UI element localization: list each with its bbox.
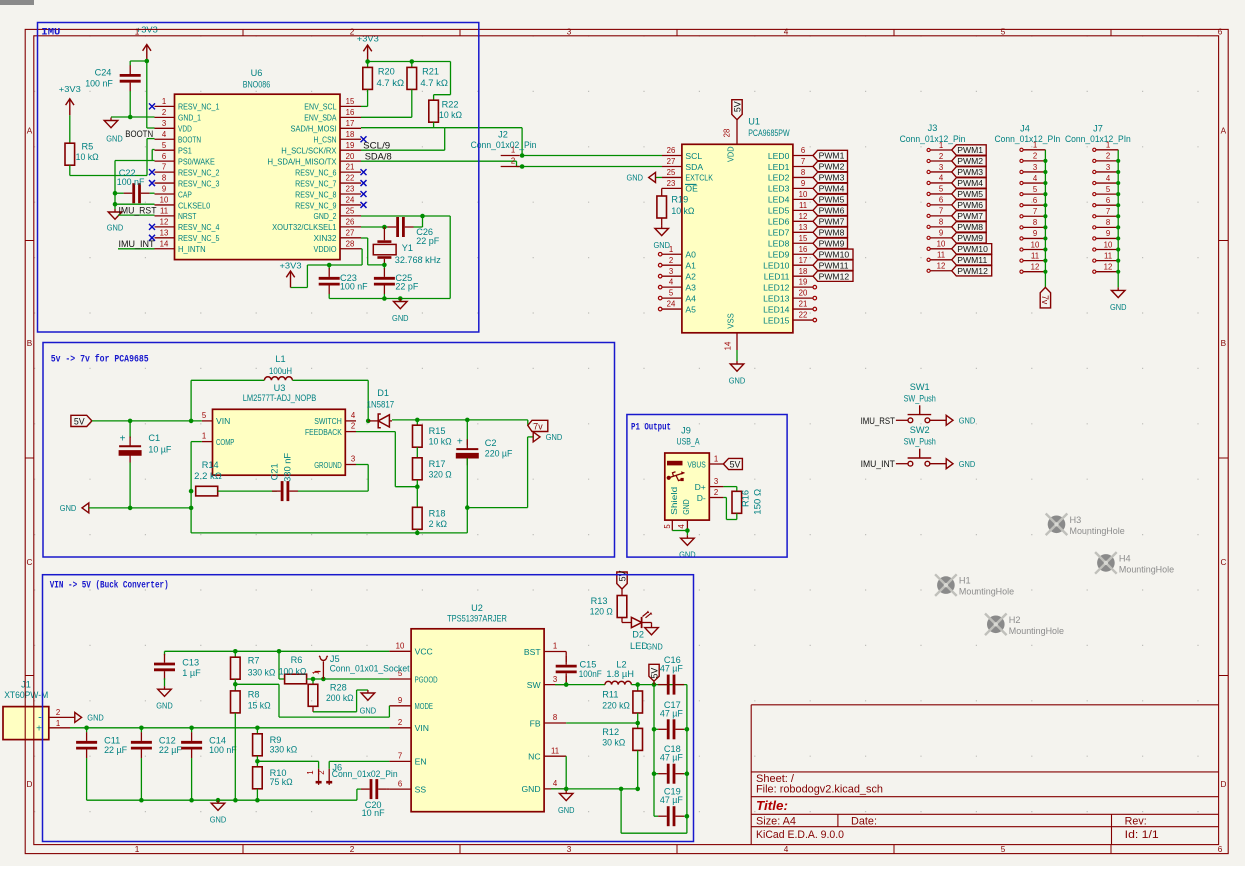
svg-text:PGOOD: PGOOD [415,674,438,684]
svg-text:2: 2 [669,256,673,265]
svg-text:22 µF: 22 µF [159,745,182,755]
svg-text:RESV_NC_2: RESV_NC_2 [178,167,220,177]
svg-text:D: D [1220,780,1226,789]
svg-text:Rev:: Rev: [1125,816,1147,828]
svg-text:2: 2 [1106,152,1110,161]
svg-text:1: 1 [311,670,320,675]
svg-text:22 µF: 22 µF [104,745,127,755]
svg-text:15: 15 [799,234,808,243]
svg-text:7: 7 [801,157,805,166]
svg-text:H4: H4 [1119,553,1131,563]
svg-text:BOOTN: BOOTN [178,135,201,145]
svg-text:10 kΩ: 10 kΩ [76,152,99,162]
svg-text:100 nF: 100 nF [85,79,113,89]
svg-text:3: 3 [567,845,572,854]
svg-text:3: 3 [939,163,943,172]
svg-text:PWM3: PWM3 [819,173,845,183]
svg-text:200 kΩ: 200 kΩ [326,693,354,703]
svg-text:5V: 5V [732,101,742,112]
svg-text:4: 4 [677,524,686,529]
svg-text:LED11: LED11 [764,271,790,281]
svg-text:LED0: LED0 [768,151,790,161]
svg-text:LED15: LED15 [763,315,789,325]
svg-text:5: 5 [663,524,672,529]
svg-text:5: 5 [1106,185,1111,194]
svg-text:8: 8 [553,713,557,722]
svg-text:3: 3 [1033,163,1037,172]
svg-text:+3V3: +3V3 [280,260,302,270]
svg-text:100nF: 100nF [579,669,602,679]
svg-text:H_INTN: H_INTN [178,244,206,254]
svg-text:11: 11 [937,251,945,260]
svg-text:EXTCLK: EXTCLK [685,173,713,183]
svg-text:10: 10 [160,196,169,205]
svg-text:R14: R14 [202,460,219,470]
svg-text:IMU_INT: IMU_INT [861,458,896,469]
svg-text:Y1: Y1 [402,243,413,253]
svg-text:10: 10 [1031,240,1040,249]
svg-text:30 kΩ: 30 kΩ [602,738,625,748]
svg-text:C13: C13 [182,658,199,668]
svg-text:2: 2 [350,28,355,37]
svg-text:PWM10: PWM10 [819,249,850,259]
svg-text:KiCad E.D.A. 9.0.0: KiCad E.D.A. 9.0.0 [756,829,844,841]
svg-text:C21: C21 [270,463,280,480]
svg-text:27: 27 [346,228,355,237]
svg-text:LED6: LED6 [768,217,790,227]
svg-text:C1: C1 [148,433,160,443]
svg-text:12: 12 [937,262,946,271]
svg-text:GND: GND [106,134,123,144]
svg-text:PWM2: PWM2 [957,156,983,166]
svg-text:GND: GND [959,459,976,469]
svg-text:GND: GND [681,499,691,515]
svg-text:1: 1 [56,719,60,728]
svg-text:GND: GND [521,784,540,794]
svg-text:PWM8: PWM8 [957,222,983,232]
svg-text:19: 19 [799,278,808,287]
svg-text:U2: U2 [471,603,483,613]
svg-text:MountingHole: MountingHole [1070,526,1125,536]
svg-text:100 nF: 100 nF [340,282,368,292]
svg-text:Conn_01x12_PIn: Conn_01x12_PIn [1065,133,1131,144]
svg-text:21: 21 [799,300,808,309]
svg-text:22: 22 [799,311,808,320]
svg-text:VCC: VCC [415,647,433,657]
svg-text:VSS: VSS [726,313,736,329]
svg-text:RESV_NC_7: RESV_NC_7 [295,178,337,188]
svg-text:3: 3 [351,455,355,464]
svg-text:9: 9 [939,229,943,238]
svg-text:120 Ω: 120 Ω [590,606,613,616]
svg-text:RESV_NC_8: RESV_NC_8 [295,189,337,199]
svg-text:100 nF: 100 nF [117,177,145,187]
svg-text:A3: A3 [685,282,696,292]
svg-text:1: 1 [553,642,557,651]
svg-text:PWM7: PWM7 [819,217,845,227]
svg-text:MountingHole: MountingHole [959,587,1014,597]
svg-text:220 kΩ: 220 kΩ [602,700,630,710]
svg-text:Title:: Title: [756,799,788,813]
svg-text:26: 26 [346,217,355,226]
svg-text:MountingHole: MountingHole [1119,564,1174,574]
svg-text:IMU: IMU [41,26,60,38]
svg-text:1: 1 [1106,141,1110,150]
svg-text:FB: FB [530,718,541,728]
svg-text:R18: R18 [429,508,446,518]
svg-text:5V: 5V [74,416,85,426]
svg-text:PWM6: PWM6 [819,206,845,216]
svg-text:ENV_SDA: ENV_SDA [304,113,336,123]
svg-text:SCL: SCL [685,151,702,161]
svg-text:GROUND: GROUND [314,460,342,470]
svg-text:4: 4 [784,28,789,37]
svg-text:GND: GND [959,416,976,426]
svg-text:GND: GND [392,313,409,323]
svg-text:6: 6 [1106,196,1110,205]
svg-text:24: 24 [346,196,355,205]
svg-text:A5: A5 [685,304,696,314]
svg-text:P1 Output: P1 Output [631,422,671,433]
svg-text:RESV_NC_4: RESV_NC_4 [178,222,220,232]
svg-text:R13: R13 [591,596,608,606]
svg-text:R16: R16 [741,490,751,507]
svg-text:XIN32: XIN32 [314,233,337,243]
svg-text:2: 2 [317,770,326,775]
svg-text:J9: J9 [681,426,691,436]
svg-text:PWM10: PWM10 [957,244,988,254]
svg-text:47 µF: 47 µF [660,753,683,763]
svg-text:MODE: MODE [415,701,434,711]
svg-text:7: 7 [939,207,943,216]
svg-text:+: + [120,434,126,445]
svg-text:10: 10 [396,642,405,651]
svg-text:20: 20 [799,289,808,298]
svg-text:TPS51397ARJER: TPS51397ARJER [447,614,507,624]
svg-text:17: 17 [346,119,355,128]
svg-text:XOUT32/CLKSEL1: XOUT32/CLKSEL1 [272,222,337,232]
svg-text:1: 1 [511,145,515,154]
svg-text:GND: GND [558,805,575,815]
svg-text:PS1: PS1 [178,146,192,156]
svg-text:PWM4: PWM4 [957,178,983,188]
svg-text:H2: H2 [1009,615,1021,625]
svg-text:1: 1 [135,28,140,37]
svg-text:Date:: Date: [851,816,877,828]
svg-text:23: 23 [346,185,355,194]
svg-text:-: - [38,712,42,724]
svg-text:9: 9 [1033,229,1037,238]
svg-text:LED12: LED12 [763,282,789,292]
svg-text:6: 6 [1033,196,1037,205]
svg-text:3: 3 [714,477,718,486]
svg-text:22: 22 [346,174,355,183]
svg-text:1: 1 [939,141,943,150]
svg-text:LED8: LED8 [768,239,790,249]
svg-text:8: 8 [939,218,943,227]
svg-text:18: 18 [799,267,808,276]
svg-text:6: 6 [162,152,166,161]
svg-text:A2: A2 [685,271,696,281]
svg-text:1: 1 [135,845,140,854]
svg-text:SW2: SW2 [910,425,930,435]
svg-text:18: 18 [346,130,355,139]
svg-text:Id: 1/1: Id: 1/1 [1125,829,1159,841]
svg-text:PWM11: PWM11 [819,260,849,270]
svg-text:A1: A1 [685,261,696,271]
svg-text:7: 7 [398,752,402,761]
svg-text:6: 6 [939,196,943,205]
svg-text:4: 4 [553,779,558,788]
svg-text:LM2577T-ADJ_NOPB: LM2577T-ADJ_NOPB [243,393,317,403]
svg-text:1: 1 [162,97,166,106]
svg-text:Conn_01x01_Socket: Conn_01x01_Socket [330,662,410,673]
svg-text:A: A [27,127,33,136]
svg-text:SAD/H_MOSI: SAD/H_MOSI [291,124,337,134]
svg-text:5: 5 [1033,185,1038,194]
svg-text:D+: D+ [695,482,706,492]
svg-text:8: 8 [1033,218,1037,227]
svg-text:Conn_01x12_PIn: Conn_01x12_PIn [995,133,1061,144]
svg-text:SDA: SDA [685,162,703,172]
svg-text:2: 2 [162,108,166,117]
svg-text:FEEDBACK: FEEDBACK [305,427,342,437]
svg-text:23: 23 [667,179,676,188]
svg-text:A: A [1221,127,1227,136]
svg-text:J3: J3 [928,123,938,133]
svg-text:2: 2 [511,156,515,165]
svg-text:R5: R5 [82,142,94,152]
svg-text:12: 12 [160,217,169,226]
svg-text:330 kΩ: 330 kΩ [248,668,276,678]
svg-text:OE: OE [685,184,698,194]
svg-text:+: + [457,436,463,447]
svg-text:GND_2: GND_2 [314,211,337,221]
svg-text:4: 4 [939,174,944,183]
svg-text:5V: 5V [649,668,659,679]
svg-text:4: 4 [1106,174,1111,183]
svg-text:VDD: VDD [178,124,192,134]
svg-text:5V: 5V [617,571,627,582]
svg-text:10: 10 [799,190,808,199]
svg-text:H_CSN: H_CSN [314,135,337,145]
svg-text:10 kΩ: 10 kΩ [429,436,452,446]
svg-text:4.7 kΩ: 4.7 kΩ [377,78,405,88]
svg-text:11: 11 [160,207,168,216]
svg-text:R8: R8 [248,690,260,700]
svg-text:15: 15 [346,97,355,106]
svg-text:IMU_RST: IMU_RST [119,205,157,216]
svg-text:GND: GND [60,503,77,513]
svg-text:PWM9: PWM9 [957,233,983,243]
svg-text:9: 9 [162,185,166,194]
svg-text:2 kΩ: 2 kΩ [429,519,448,529]
svg-text:3: 3 [567,28,572,37]
svg-text:10 kΩ: 10 kΩ [671,206,694,216]
svg-text:J4: J4 [1020,124,1030,134]
svg-text:14: 14 [160,239,169,248]
svg-text:1: 1 [1033,141,1037,150]
svg-text:47 µF: 47 µF [660,708,683,718]
svg-text:SCL/9: SCL/9 [363,139,390,150]
svg-text:R9: R9 [270,735,282,745]
svg-text:7v: 7v [533,422,543,432]
svg-text:H_SCL/SCK/RX: H_SCL/SCK/RX [281,146,336,156]
svg-text:Size: A4: Size: A4 [756,816,796,828]
svg-text:1: 1 [669,245,673,254]
svg-text:LED13: LED13 [763,293,789,303]
svg-text:1 µF: 1 µF [182,668,201,678]
svg-text:R6: R6 [291,655,303,665]
svg-text:20: 20 [346,152,355,161]
svg-text:GND: GND [1110,302,1127,312]
svg-text:8: 8 [1106,218,1110,227]
svg-text:R17: R17 [429,459,446,469]
svg-text:PWM1: PWM1 [957,145,983,155]
svg-text:47 µF: 47 µF [660,795,683,805]
svg-text:SW1: SW1 [910,382,930,392]
svg-text:IMU_INT: IMU_INT [119,238,155,249]
svg-text:U3: U3 [274,383,286,393]
svg-text:2: 2 [56,708,60,717]
svg-text:5: 5 [162,141,167,150]
svg-text:R19: R19 [671,194,688,204]
svg-text:5v -> 7v for PCA9685: 5v -> 7v for PCA9685 [51,353,149,364]
svg-text:2.2 kΩ: 2.2 kΩ [194,471,222,481]
svg-text:11: 11 [799,201,807,210]
svg-text:VBUS: VBUS [687,459,706,469]
svg-text:220 µF: 220 µF [485,448,513,458]
svg-text:13: 13 [799,223,808,232]
svg-text:3: 3 [669,267,673,276]
svg-text:1: 1 [306,770,315,775]
svg-text:32.768 kHz: 32.768 kHz [395,255,441,265]
svg-text:PWM6: PWM6 [957,200,983,210]
svg-text:R28: R28 [330,683,347,693]
svg-text:5: 5 [1001,28,1006,37]
svg-text:A0: A0 [685,250,696,260]
svg-text:10 nF: 10 nF [362,808,385,818]
svg-text:D: D [27,780,33,789]
svg-text:7: 7 [1106,207,1110,216]
svg-text:PCA9685PW: PCA9685PW [748,128,790,138]
svg-text:47 µF: 47 µF [660,664,683,674]
svg-text:GND: GND [360,706,377,716]
svg-text:9: 9 [398,696,402,705]
svg-text:C: C [27,558,33,567]
svg-text:PWM5: PWM5 [819,195,845,205]
svg-text:10 µF: 10 µF [148,444,171,454]
svg-text:4: 4 [1033,174,1038,183]
svg-text:4: 4 [669,278,674,287]
svg-text:+: + [36,724,42,735]
svg-text:File: robodogv2.kicad_sch: File: robodogv2.kicad_sch [756,783,883,795]
svg-text:PWM8: PWM8 [819,227,845,237]
svg-text:RESV_NC_9: RESV_NC_9 [295,200,337,210]
svg-text:150 Ω: 150 Ω [753,489,763,515]
svg-text:14: 14 [724,341,733,350]
svg-text:R20: R20 [378,67,395,77]
svg-text:PWM3: PWM3 [957,167,983,177]
svg-text:MountingHole: MountingHole [1009,626,1064,636]
svg-text:LED7: LED7 [768,228,790,238]
svg-text:RESV_NC_5: RESV_NC_5 [178,233,220,243]
svg-text:USB_A: USB_A [677,436,701,446]
svg-text:16: 16 [346,108,355,117]
svg-text:22 pF: 22 pF [416,236,439,246]
svg-text:LED4: LED4 [768,195,790,205]
svg-text:+3V3: +3V3 [59,84,81,94]
svg-text:D2: D2 [632,630,644,640]
svg-text:25: 25 [346,207,355,216]
svg-text:5V: 5V [730,459,741,469]
svg-text:R22: R22 [442,100,459,110]
svg-text:3: 3 [553,675,557,684]
svg-text:16: 16 [799,245,808,254]
svg-text:GND: GND [87,713,104,723]
svg-text:D1: D1 [377,388,389,398]
svg-text:GND: GND [679,550,696,560]
svg-text:BNO086: BNO086 [243,80,271,90]
svg-text:D-: D- [697,493,706,503]
svg-text:3: 3 [162,119,166,128]
svg-text:5: 5 [669,289,674,298]
svg-text:9: 9 [801,179,805,188]
svg-text:NRST: NRST [178,211,197,221]
svg-text:4: 4 [784,845,789,854]
svg-text:6: 6 [801,146,805,155]
svg-text:11: 11 [1031,251,1039,260]
svg-text:1.8 µH: 1.8 µH [606,669,634,679]
svg-text:GND: GND [653,240,670,250]
svg-text:Conn_01x02_Pin: Conn_01x02_Pin [332,768,398,779]
svg-text:PWM12: PWM12 [819,271,850,281]
svg-text:28: 28 [346,239,355,248]
svg-text:330 nF: 330 nF [282,453,292,482]
svg-text:SDA/8: SDA/8 [365,151,392,162]
svg-text:LED3: LED3 [768,184,790,194]
svg-text:PS0/WAKE: PS0/WAKE [178,156,215,166]
svg-text:4: 4 [162,130,167,139]
svg-text:Conn_01x02_Pin: Conn_01x02_Pin [471,139,537,150]
svg-text:2: 2 [398,718,402,727]
svg-text:PWM2: PWM2 [819,162,845,172]
svg-text:PWM12: PWM12 [957,266,988,276]
svg-text:U1: U1 [748,117,760,127]
svg-text:GND: GND [646,642,663,652]
svg-text:1: 1 [202,432,206,441]
svg-text:LED14: LED14 [763,304,789,314]
svg-text:17: 17 [799,256,808,265]
svg-text:A4: A4 [685,293,696,303]
svg-text:5: 5 [1001,845,1006,854]
svg-text:7: 7 [162,163,166,172]
svg-text:H3: H3 [1070,515,1082,525]
svg-text:320 Ω: 320 Ω [429,470,452,480]
svg-text:GND: GND [546,432,563,442]
svg-text:PWM11: PWM11 [957,255,987,265]
svg-text:U6: U6 [251,68,263,78]
svg-text:1: 1 [714,454,718,463]
svg-text:6: 6 [1218,845,1223,854]
svg-text:PWM4: PWM4 [819,184,845,194]
svg-text:BST: BST [524,647,541,657]
svg-text:NC: NC [528,752,540,762]
svg-text:8: 8 [801,168,805,177]
svg-text:PWM9: PWM9 [819,238,845,248]
svg-text:PWM5: PWM5 [957,189,983,199]
svg-text:RESV_NC_6: RESV_NC_6 [295,167,337,177]
